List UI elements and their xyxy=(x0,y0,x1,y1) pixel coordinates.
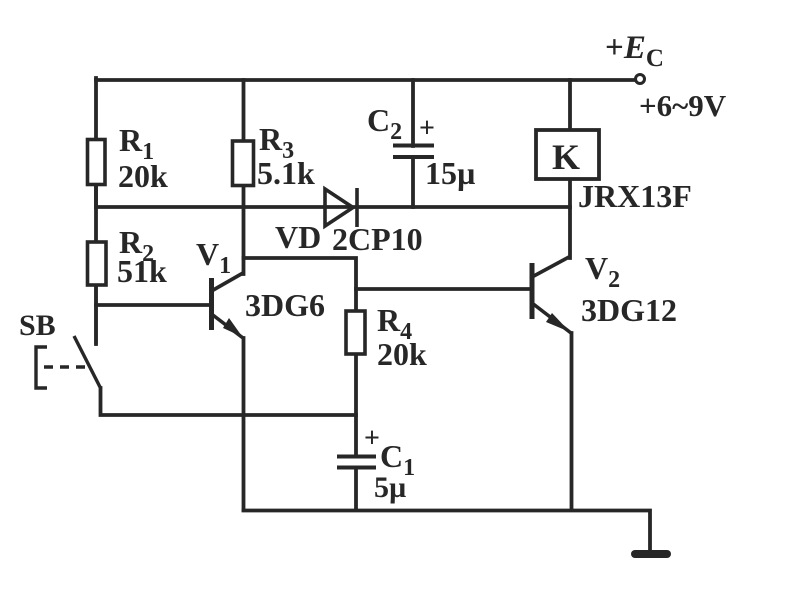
svg-text:+: + xyxy=(419,113,435,144)
svg-text:20k: 20k xyxy=(377,336,427,372)
svg-text:VD: VD xyxy=(275,219,321,255)
wire C2 bottom to node line xyxy=(411,157,415,207)
svg-text:3DG6: 3DG6 xyxy=(245,287,325,323)
wire R1 to node line xyxy=(94,184,98,242)
pushbutton switch SB xyxy=(36,285,101,389)
ground xyxy=(635,550,667,558)
resistor R2 xyxy=(88,242,107,285)
svg-text:20k: 20k xyxy=(118,158,168,194)
svg-text:+EC: +EC xyxy=(605,30,664,72)
diode VD xyxy=(325,188,357,227)
svg-text:2CP10: 2CP10 xyxy=(332,221,423,257)
svg-text:15µ: 15µ xyxy=(425,155,475,191)
svg-text:51k: 51k xyxy=(117,253,167,289)
power terminal +Ec xyxy=(636,75,645,84)
resistor R4 xyxy=(346,311,365,354)
transistor V1 xyxy=(212,273,244,338)
svg-text:V1: V1 xyxy=(196,236,231,279)
wire top supply rail xyxy=(96,78,637,82)
wire R4 bottom to C1 top xyxy=(354,354,358,456)
capacitor C1 xyxy=(337,457,376,468)
wire node line (diode row) xyxy=(96,205,570,209)
transistor V2 xyxy=(532,257,571,333)
wire K top branch xyxy=(568,80,572,130)
svg-text:JRX13F: JRX13F xyxy=(578,178,692,214)
wire C2 top branch xyxy=(411,80,415,146)
wire V2 base line xyxy=(356,287,530,291)
svg-text:V2: V2 xyxy=(585,250,620,293)
svg-text:SB: SB xyxy=(19,309,56,342)
resistor R1 xyxy=(88,140,106,185)
svg-text:+: + xyxy=(364,423,380,454)
wire ground rail xyxy=(244,511,651,553)
capacitor C2 xyxy=(393,146,434,158)
wire collector jog to R4 top xyxy=(244,258,357,311)
svg-text:5µ: 5µ xyxy=(374,471,406,504)
wire left vertical R1 branch xyxy=(94,78,98,207)
wire V2 emitter down xyxy=(570,333,574,510)
svg-text:5.1k: 5.1k xyxy=(257,155,315,191)
wire SB bottom to timing node xyxy=(101,388,357,415)
svg-text:+6~9V: +6~9V xyxy=(639,88,727,123)
resistor R3 xyxy=(233,141,254,186)
wire V1 emitter down xyxy=(242,338,246,510)
svg-text:C2: C2 xyxy=(367,102,402,145)
wire V1 base line xyxy=(96,303,211,307)
relay coil K xyxy=(536,130,599,179)
wire K bottom to V2 collector xyxy=(568,179,572,258)
wire C1 bottom to ground rail xyxy=(354,468,358,510)
wire R2 bottom to switch xyxy=(94,285,98,344)
svg-text:K: K xyxy=(552,137,580,177)
svg-text:3DG12: 3DG12 xyxy=(581,292,677,328)
wire R3 / V1 collector vertical xyxy=(242,80,246,274)
